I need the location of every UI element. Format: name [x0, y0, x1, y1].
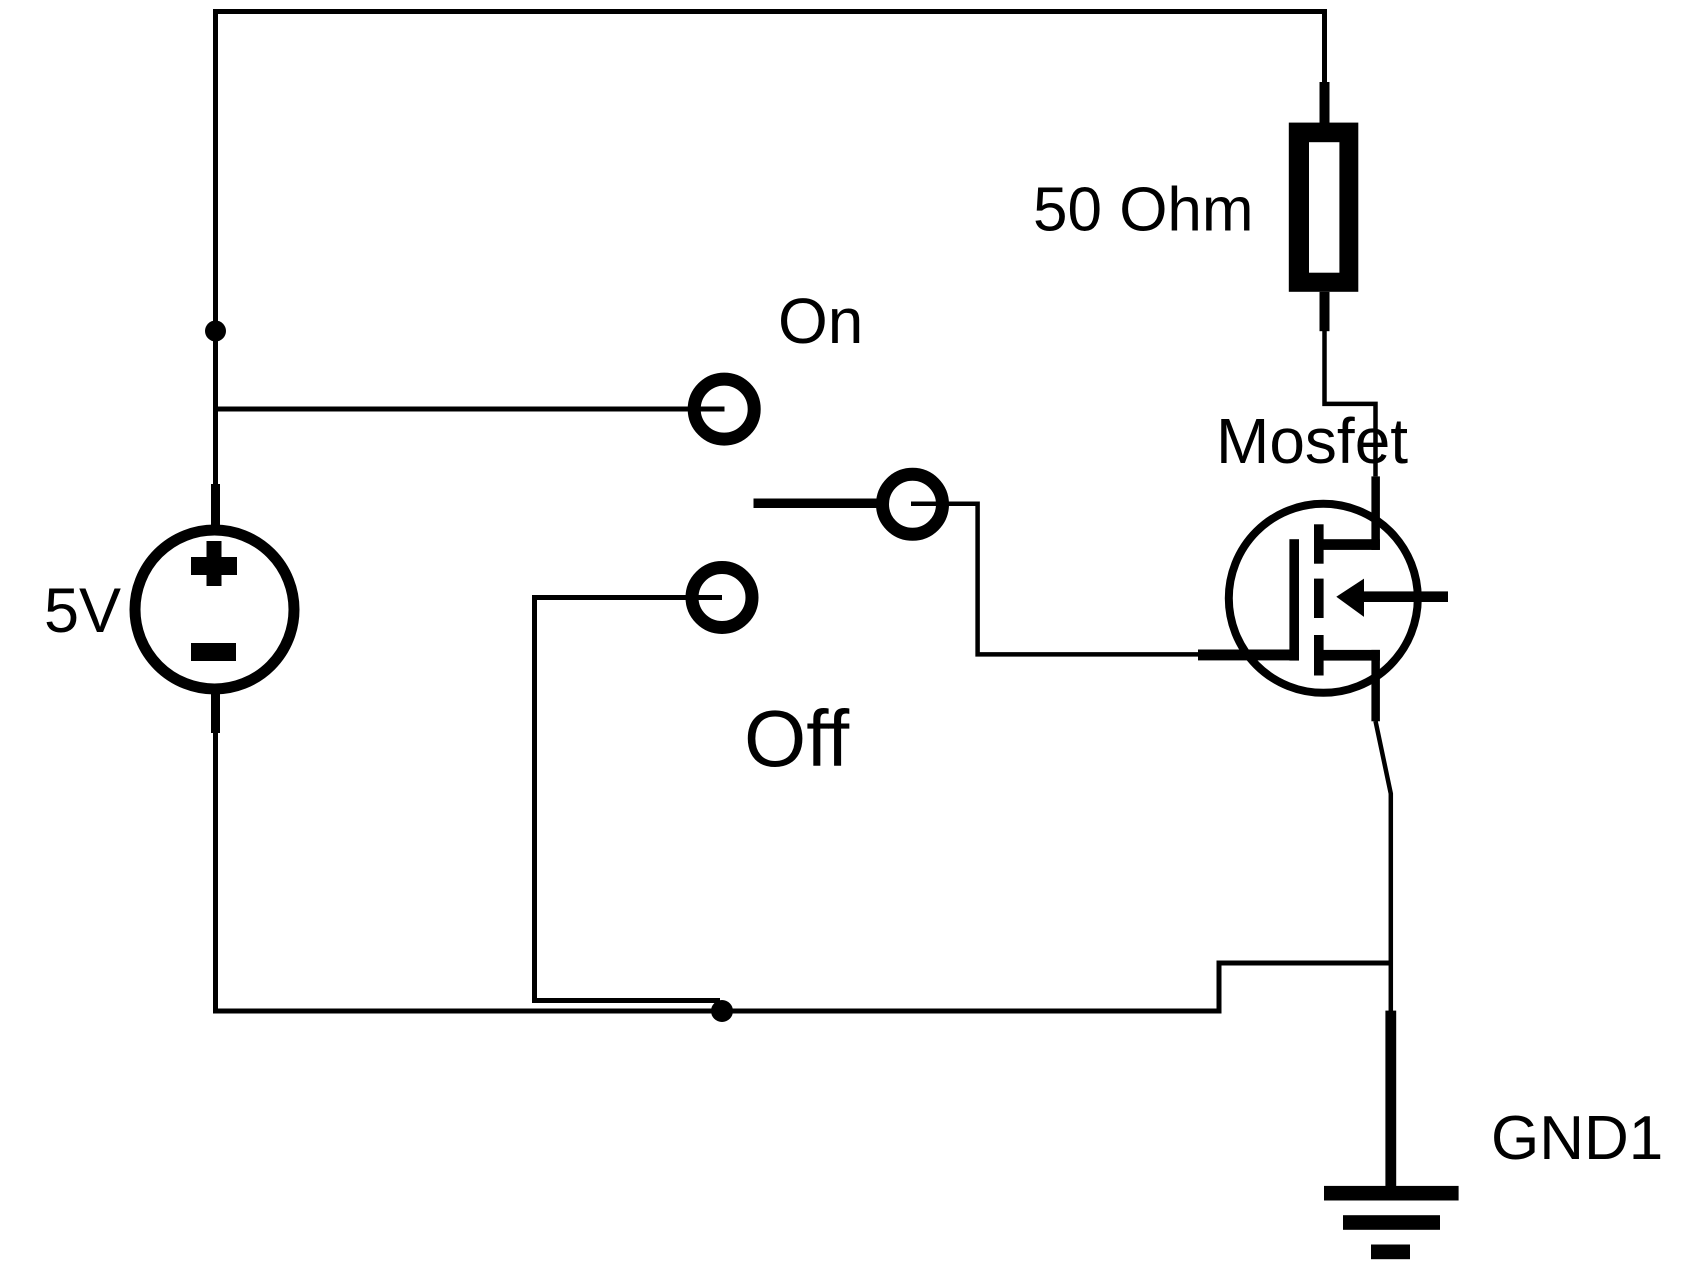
switch SW1 lever arm [754, 499, 880, 509]
ground GND1 lead stub [1385, 1011, 1396, 1186]
switch SW1 Off throw terminal [692, 568, 752, 628]
transistor Q1 source lead vertical [1371, 650, 1380, 721]
svg-text:GND1: GND1 [1491, 1104, 1663, 1173]
wire top rail from 5V+ to resistor [216, 12, 1325, 488]
wire from 5V- down and along bottom to source net [216, 732, 1392, 1011]
transistor Q1 MOSFET body circle [1229, 504, 1418, 693]
voltage source V1 plus sign [191, 557, 237, 575]
voltage source V1 5V circle [135, 530, 294, 689]
wire from resistor to MOSFET drain [1325, 331, 1376, 476]
resistor R1 50 Ohm body [1289, 123, 1359, 292]
transistor Q1 channel segment middle [1314, 579, 1324, 618]
svg-text:Off: Off [744, 694, 850, 783]
svg-text:Mosfet: Mosfet [1216, 405, 1408, 477]
resistor R1 bottom lead stub [1320, 292, 1330, 331]
resistor R1 top lead stub [1320, 82, 1330, 124]
transistor Q1 source internal horizontal [1324, 650, 1380, 661]
node A junction dot on 5V+ rail [205, 321, 226, 342]
transistor Q1 drain internal horizontal [1324, 539, 1380, 550]
node B junction dot bottom [711, 1000, 733, 1022]
transistor Q1 gate bar [1289, 539, 1299, 660]
transistor Q1 drain lead vertical [1371, 476, 1380, 550]
transistor Q1 bulk line [1360, 591, 1448, 602]
wire from switch common to MOSFET gate [911, 504, 1199, 655]
wire from Off terminal to bottom junction [535, 598, 723, 1001]
voltage source V1 minus sign [191, 643, 236, 661]
svg-text:50 Ohm: 50 Ohm [1033, 176, 1254, 245]
wire from MOSFET source to ground net [1376, 721, 1391, 1011]
voltage source V1 top lead stub [211, 484, 220, 527]
switch SW1 common pole terminal [883, 474, 943, 534]
ground GND1 symbol [1324, 1186, 1459, 1201]
wire from 5V+ rail to On terminal [213, 407, 725, 412]
transistor Q1 channel segment bottom [1314, 635, 1324, 676]
transistor Q1 channel segment top [1314, 524, 1324, 563]
transistor Q1 bulk arrow head [1336, 579, 1364, 617]
svg-text:5V: 5V [44, 576, 121, 646]
switch SW1 On throw terminal [694, 379, 754, 439]
voltage source V1 bottom lead stub [211, 692, 220, 733]
svg-text:On: On [778, 285, 863, 357]
transistor Q1 gate lead thick [1198, 650, 1299, 661]
